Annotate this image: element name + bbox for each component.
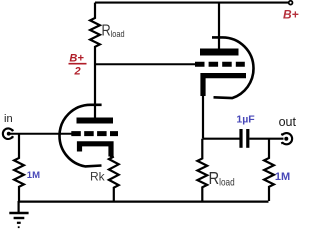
resistor R1 1M (left) zigzag (14, 134, 24, 201)
triode V1 plate (77, 118, 114, 124)
triode V1 envelope (59, 105, 101, 167)
svg-text:1M: 1M (275, 171, 290, 183)
ground dot (18, 226, 20, 228)
triode V2 grid (195, 62, 245, 67)
triode V1 grid (71, 131, 118, 136)
triode V2 envelope (212, 37, 254, 98)
resistor Rk zigzag (109, 157, 119, 202)
svg-text:Rk: Rk (90, 170, 106, 184)
svg-text:Rload: Rload (209, 169, 235, 189)
ground bar 2 (14, 217, 25, 219)
terminal in center dot (7, 132, 11, 136)
wire output node to capacitor (203, 138, 240, 140)
triode V2 cathode (203, 76, 246, 96)
wire top supply rail (95, 2, 289, 4)
svg-text:Rload: Rload (102, 22, 125, 39)
triode V2 plate (200, 49, 239, 56)
wire B+/2 node to V2 grid (95, 63, 195, 65)
terminal out outer ring (281, 133, 292, 144)
wire V1 cathode to Rk (110, 150, 112, 157)
ground bar 3 (17, 222, 21, 224)
resistor R2 1M (right) zigzag (264, 139, 274, 201)
svg-text:B+: B+ (283, 8, 299, 22)
svg-text:2: 2 (74, 66, 81, 78)
resistor Rload (lower) zigzag (197, 139, 207, 201)
ground stem (18, 201, 20, 212)
wire V2 plate from rail (218, 3, 220, 49)
resistor Rload (upper) zigzag (90, 3, 100, 118)
terminal B+ (289, 1, 293, 5)
svg-text:in: in (4, 113, 13, 125)
svg-text:out: out (279, 115, 297, 129)
svg-text:B+: B+ (69, 53, 84, 65)
terminal out center dot (284, 137, 288, 141)
capacitor C1 left plate (239, 129, 242, 148)
capacitor C1 right plate (246, 129, 249, 148)
terminal in outer ring (3, 128, 14, 139)
label B+/2 fraction bar (69, 63, 87, 65)
wire bottom ground rail (19, 201, 269, 203)
triode V1 cathode (80, 144, 112, 157)
wire capacitor to out terminal (249, 138, 283, 140)
wire in terminal to V1 grid (9, 133, 72, 135)
svg-text:1M: 1M (27, 170, 40, 181)
svg-text:1µF: 1µF (236, 114, 255, 126)
ground bar 1 (9, 212, 28, 215)
wire V2 cathode to output node (202, 95, 204, 139)
